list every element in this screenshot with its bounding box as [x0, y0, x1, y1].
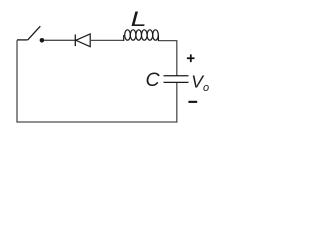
wire: top-right segment from inductor to corner	[158, 40, 177, 42]
wire: node to diode cathode	[44, 39, 75, 41]
inductor L: coil loop 3	[136, 30, 142, 40]
inductor L: coil loop 2	[130, 30, 136, 40]
wire: left vertical side	[16, 40, 18, 122]
inductor L: coil loop 1	[125, 30, 131, 40]
wire: right side upper (corner to capacitor top plate)	[176, 41, 178, 76]
capacitor C: top plate	[164, 75, 189, 77]
inductor L: right riser	[157, 35, 159, 41]
diode cathode bar	[74, 35, 76, 47]
inductor L: coil loop 6	[153, 30, 159, 40]
switch: open blade (throw arm)	[28, 26, 41, 40]
svg-text:C: C	[146, 69, 161, 91]
diode triangle (anode, pointing left)	[76, 34, 90, 47]
inductor L: coil loop 5	[147, 30, 153, 40]
wire: bottom side	[16, 121, 177, 123]
node: junction dot at switch output	[40, 38, 45, 43]
label - (polarity mark)	[188, 101, 197, 103]
inductor L: coil loop 4	[142, 30, 148, 40]
label + (polarity mark)	[187, 54, 195, 62]
wire: right side lower (capacitor to bottom)	[176, 82, 178, 122]
capacitor C: bottom plate	[164, 81, 189, 83]
switch: fixed contact stub from top-left corner	[17, 39, 28, 41]
svg-text:Vo: Vo	[191, 72, 209, 95]
svg-text:L: L	[131, 7, 147, 31]
inductor L: left riser	[123, 35, 125, 41]
wire: diode to inductor	[90, 39, 124, 41]
